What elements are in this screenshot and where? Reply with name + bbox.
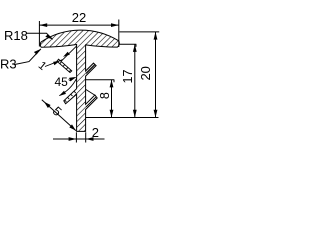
dimension 17: reference and dimension lines [119,44,136,117]
dimension 5 lower arrow [69,124,76,130]
dimension 20 top arrow [154,32,158,40]
hatch ticks of lower-left barb [65,91,76,102]
svg-text:R3: R3 [0,57,17,72]
svg-text:22: 22 [72,10,86,25]
short edge line above lower-right barb [86,89,95,95]
dimension 20: reference and dimension lines [119,32,159,118]
R3 leader line [14,49,41,65]
dimension 5 line (diagonal) [42,100,76,131]
svg-text:R18: R18 [4,28,28,43]
dimension 5 upper arrow [44,102,51,108]
hatch ticks of detached strip [60,62,71,72]
label 1 leader line [45,60,63,67]
dimension 22: extension and dimension lines [39,20,118,48]
svg-text:20: 20 [138,66,153,80]
dimension 8 bottom arrow [110,110,114,118]
svg-text:45°: 45° [55,75,73,89]
inner hatch line of upper-right barb [86,65,95,74]
dimension 22 right arrow [111,23,119,27]
svg-text:8: 8 [98,92,112,99]
svg-text:2: 2 [92,125,99,140]
profile outline: curved top flange with stem and 45-degree barbs, section-hatched [40,30,119,131]
angle arc upper arrow [69,77,76,82]
dimension 2 left arrow [69,137,77,141]
dimension 2: extension and dimension lines [53,132,105,142]
detached 45-degree strip (upper left) [57,59,72,72]
R18 leader arrow [45,34,52,39]
opposing thickness arrow [63,52,70,57]
R3 leader arrow [34,49,41,55]
inner hatch line of lower-right barb [86,97,96,107]
label 1 leader arrow [53,61,60,65]
dimension 17 bottom arrow [133,110,137,118]
R18 leader line [27,33,53,39]
angle dimension arc [59,78,76,95]
svg-text:17: 17 [121,70,135,84]
opposing thickness dimension line [61,46,77,61]
dimension 8 top arrow [110,80,114,88]
dimension 2 right arrow [86,137,94,141]
dimension 20 bottom arrow [154,110,158,118]
angle arc lower arrow [59,91,66,96]
dimension 8: reference and dimension lines [86,80,159,118]
dimension 17 top arrow [133,44,137,52]
dimension 22 left arrow [39,23,47,27]
